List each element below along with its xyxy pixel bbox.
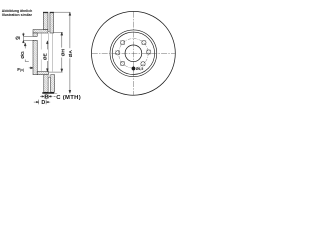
section bottom cap	[42, 92, 54, 94]
dim extension line top (OA)	[54, 11, 71, 13]
svg-text:D: D	[41, 100, 45, 106]
dim OG line	[24, 43, 29, 62]
bolt hole 3	[116, 51, 120, 55]
bolt hole 6 ticks	[141, 62, 145, 66]
section hat flange	[33, 30, 48, 33]
ext line ring mid	[47, 33, 49, 72]
svg-text:ØE: ØE	[42, 52, 48, 60]
bolt hole 4	[147, 50, 151, 54]
dim OI line	[23, 33, 25, 43]
hub rim outer circle	[110, 30, 157, 77]
dim D row	[34, 100, 50, 105]
screw hole dark	[132, 67, 136, 71]
section friction ring right plate	[33, 12, 55, 92]
svg-text:Ø6,5: Ø6,5	[136, 67, 143, 71]
dim extension lines OI bore	[24, 35, 37, 37]
bolt hole 2	[142, 40, 146, 44]
dim C leader	[54, 95, 56, 97]
dim extension line OH top	[54, 31, 63, 33]
dim B row	[40, 95, 52, 99]
section ring vent slot closure	[48, 31, 50, 33]
svg-text:ØH: ØH	[61, 49, 67, 57]
section hub base bar	[37, 72, 48, 75]
bolt hole 5 ticks	[120, 61, 124, 65]
ext line OE aux	[40, 34, 42, 50]
section friction ring left plate	[43, 12, 48, 30]
bolt circle dash-dot	[119, 39, 149, 69]
bolt hole 4 ticks	[147, 50, 151, 54]
dim extension line OH bottom	[49, 71, 63, 73]
bolt hole 3 ticks	[116, 51, 120, 55]
center bore circle	[125, 45, 142, 62]
screw hole tick	[133, 66, 135, 71]
bolt hole 5	[120, 61, 124, 65]
centerline horizontal	[92, 52, 175, 54]
section hub block left	[44, 75, 48, 93]
svg-text:Illustration similar: Illustration similar	[2, 13, 33, 17]
disc outer circle	[91, 11, 175, 95]
bolt hole cross ticks	[116, 40, 151, 66]
svg-text:ØA: ØA	[68, 50, 74, 58]
bolt hole 1	[116, 40, 151, 66]
svg-text:ØI: ØI	[15, 36, 20, 41]
ext line C top	[54, 93, 57, 95]
leader F arrow	[29, 67, 34, 69]
bolt hole 2 ticks	[142, 40, 146, 44]
svg-text:ØG: ØG	[20, 51, 26, 59]
ext line ring right	[51, 33, 53, 72]
section hat wall lower	[33, 40, 37, 74]
dim OA line	[69, 12, 71, 93]
bolt hole 6	[141, 62, 145, 66]
dim OH line	[61, 32, 63, 72]
svg-text:C (MTH): C (MTH)	[56, 95, 81, 101]
dim OE line	[46, 41, 48, 72]
section hub block slot closure	[48, 75, 50, 78]
section hub block right	[51, 75, 55, 93]
section ring top cap	[43, 12, 48, 13]
bolt hole 1 ticks	[120, 40, 124, 44]
section hat wall upper	[33, 33, 37, 36]
hub rim inner circle	[112, 32, 154, 74]
svg-text:F(x): F(x)	[17, 67, 24, 72]
centerline vertical	[132, 12, 134, 96]
